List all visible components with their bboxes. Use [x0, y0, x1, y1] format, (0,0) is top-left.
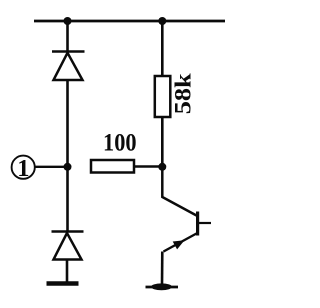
transistor Q1 base lead	[198, 222, 211, 224]
transistor Q1 emitter with arrow (PNP, arrow toward base)	[164, 234, 197, 252]
transistor Q1 base bar	[196, 212, 199, 236]
wire left branch: D1 anode to middle node	[66, 80, 69, 167]
svg-text:100: 100	[103, 128, 137, 157]
diode D1 (upper-left, pointing up)	[52, 52, 85, 81]
wire: emitter to ground	[161, 252, 164, 285]
wire left branch: rail to diode D1 cathode	[66, 21, 69, 52]
resistor R1 100 (horizontal)	[91, 160, 134, 173]
terminal pad 1 (circle with numeral)	[12, 156, 35, 179]
transistor Q1 (PNP) collector wire	[162, 167, 196, 216]
wire left branch: middle node to diode D2 cathode	[66, 167, 69, 232]
resistor R2 58k (vertical)	[155, 76, 171, 117]
wire right branch: R2 to middle junction	[161, 117, 164, 167]
svg-text:1: 1	[17, 155, 29, 182]
wire: R1 to right junction	[134, 165, 162, 167]
svg-text:58k: 58k	[171, 72, 197, 114]
node junction dot top-right	[158, 17, 166, 25]
diode D2 (lower-left, pointing up)	[52, 232, 84, 260]
wire: D2 anode to ground	[66, 260, 69, 283]
node junction dot middle-right	[158, 163, 166, 171]
ground (left)	[47, 281, 79, 286]
wire top supply rail	[34, 20, 225, 23]
ground (right)	[146, 286, 179, 289]
wire right branch: rail to resistor R2	[161, 21, 164, 76]
node junction dot middle-left	[64, 163, 72, 171]
node junction dot top-left	[64, 17, 72, 25]
wire: terminal 1 to middle junction	[35, 166, 68, 168]
